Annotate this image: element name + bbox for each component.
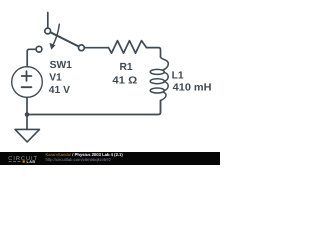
terminal circle (common, right) [79,45,85,51]
switch blade [50,32,78,46]
svg-text:V1: V1 [49,72,62,83]
source circle [12,67,43,98]
coil exit curve [161,92,166,100]
coil loop 2 [150,79,164,84]
coil bottom lead [160,101,162,113]
switch SW1 [36,24,84,52]
svg-text:41 V: 41 V [49,85,70,96]
coil connector 1 [164,73,168,82]
svg-text:http://circuitlab.com/c6mbbqkc: http://circuitlab.com/c6mbbqkcvb92 [46,157,112,162]
wire source bottom to junction [26,97,28,114]
resistor R1 [109,41,147,54]
CircuitLab logo: trace dashes [9,161,23,163]
footer bar [0,152,220,165]
plus sign [22,71,32,81]
CircuitLab logo: orange pad [23,160,25,162]
svg-text:L1: L1 [172,70,184,81]
wire stub above switch throw [47,13,49,29]
minus sign [22,86,32,88]
terminal circle (top throw) [45,28,51,34]
svg-text:41 Ω: 41 Ω [112,75,137,86]
coil loop 1 [150,69,164,74]
actuation arrowhead [49,43,55,50]
ground [15,129,40,142]
wire resistor to inductor top [147,48,161,57]
inductor L1 [150,57,168,113]
coil connector 2 [164,82,168,91]
svg-text:SW1: SW1 [50,60,73,71]
terminal circle (left throw) [36,46,42,52]
svg-text:410 mH: 410 mH [173,83,212,94]
coil entry curve [161,57,169,70]
wire junction to ground [26,115,28,130]
svg-text:R1: R1 [120,62,133,73]
svg-text:LAB: LAB [27,160,36,164]
actuation arrow curve [53,24,59,44]
bottom rail wire [27,101,161,115]
coil loop 3 [150,88,164,93]
wire switch common to resistor [84,47,108,49]
voltage source V1 [12,67,43,98]
junction dot [25,112,30,117]
wire from left throw to source top [27,49,36,66]
